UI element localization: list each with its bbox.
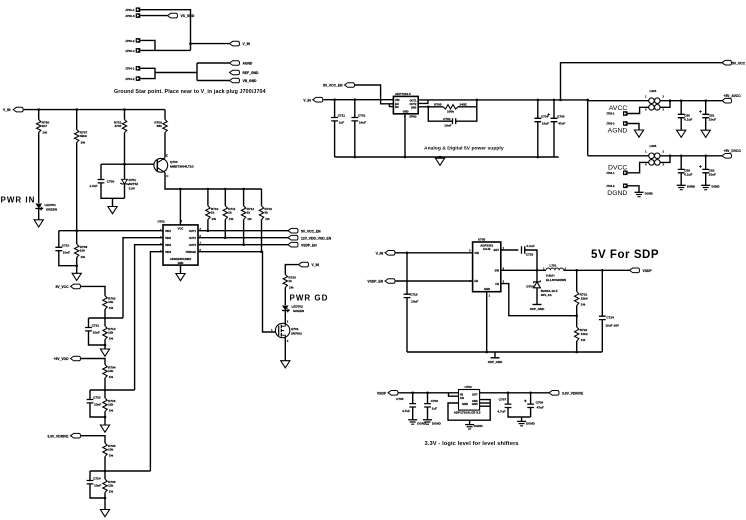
resistor R711 body [223,206,227,220]
net flag 12V_VDD_VSD_EN [288,235,298,240]
wire [494,352,496,358]
svg-text:4.7uF: 4.7uF [497,410,505,414]
wire [418,100,428,104]
svg-text:10nF: 10nF [94,403,101,407]
svg-text:VSDP_EN: VSDP_EN [301,243,317,247]
svg-text:C713: C713 [93,396,101,400]
svg-text:C712: C712 [92,324,100,328]
svg-text:1uF: 1uF [339,121,345,125]
svg-text:C710: C710 [62,243,70,247]
wire VSDP to U700 [399,392,459,394]
wire [660,156,670,163]
junction [559,99,562,102]
junction [586,99,589,102]
svg-text:1.0nF: 1.0nF [89,184,97,188]
svg-text:VIN2: VIN2 [165,236,171,240]
wire base net [101,163,157,165]
svg-text:VCC: VCC [178,226,184,230]
svg-text:J700-3: J700-3 [125,14,135,18]
svg-text:J703-1: J703-1 [606,112,615,116]
svg-text:C707: C707 [499,398,507,402]
capacitor C706 body [424,404,431,407]
svg-text:1%: 1% [109,337,114,341]
svg-text:GND: GND [403,109,409,113]
capacitor C724 body [599,316,606,319]
LED LED702 [282,306,289,311]
wire R720 to LED702 [284,288,286,306]
wire J700-3 to VS_GND [140,15,167,17]
svg-text:E: E [166,154,168,158]
wire [428,107,452,121]
wire [412,407,414,420]
net flag V_IN (supply) [313,97,323,102]
wire [564,269,630,271]
svg-text:1%: 1% [81,141,86,145]
net flag 5V_VCC [722,60,732,65]
diode D700 body [534,280,541,283]
resistor R708 body [75,244,79,258]
svg-text:GND: GND [484,287,490,291]
wire [261,189,263,206]
wire [104,378,106,390]
wire [38,110,40,120]
svg-text:VSDP: VSDP [377,391,387,395]
wire [680,173,682,186]
svg-text:FB: FB [495,282,499,286]
svg-text:C719: C719 [410,292,418,296]
connector pin AVCC [623,111,628,116]
wire J700-1 to star point [140,10,190,51]
svg-text:V_IN: V_IN [303,98,311,102]
svg-text:10k: 10k [108,300,113,304]
junction [224,236,227,239]
svg-text:J703-4: J703-4 [125,49,135,53]
capacitor C707 body [505,404,512,407]
svg-text:DGND: DGND [687,185,695,189]
wire R700 to LED701 [38,133,40,204]
svg-text:47uF: 47uF [558,121,565,125]
junction [537,99,540,102]
svg-text:+5V_VDD: +5V_VDD [54,357,70,361]
resistor R709 body [163,120,167,133]
wire OUT3 to flag [198,244,288,246]
wire [104,493,106,510]
net flag V_IN (PWR GD) [299,262,309,267]
wire [705,118,707,131]
LED LED701 [35,204,42,209]
wire [406,298,408,352]
connector pin J700-1 [136,7,141,12]
svg-text:10uF: 10uF [709,173,716,177]
wire VIN3 net [135,245,163,390]
svg-text:EPAD: EPAD [410,115,417,119]
wire [628,107,649,113]
junction [537,156,540,159]
svg-text:2k7: 2k7 [42,124,47,128]
wire divider junction [90,389,135,391]
wire +5V_VDD [81,359,105,365]
junction [427,106,430,109]
svg-text:V_IN: V_IN [243,42,251,46]
resistor R716 body [103,398,107,412]
svg-text:4700: 4700 [114,124,121,128]
svg-text:IN: IN [460,392,463,396]
wire [104,412,106,426]
svg-text:VIN: VIN [474,251,479,255]
wire [406,253,408,294]
svg-text:DGND: DGND [474,424,484,428]
junction [123,163,126,166]
wire [561,63,723,100]
resistor R722 body [575,327,579,341]
svg-text:J700-1: J700-1 [125,8,135,12]
ground DGND [423,419,432,421]
wire [334,100,336,118]
svg-text:10nF: 10nF [444,124,451,128]
wire 3.3V_VDRIVE [81,436,105,443]
svg-text:U705: U705 [478,238,486,242]
wire [224,220,226,238]
wire [553,122,555,157]
svg-text:C723: C723 [526,253,534,257]
junction [242,188,245,191]
svg-text:3: 3 [469,250,471,253]
wire [124,110,126,120]
svg-text:OUT1: OUT1 [409,99,416,103]
wire [530,408,532,418]
junction [75,264,78,267]
ground DGND [517,420,526,422]
svg-text:1k: 1k [288,279,292,283]
resistor R720 [283,275,287,288]
wire [660,101,670,108]
svg-text:Analog & Digital 5V power supp: Analog & Digital 5V power supply [424,146,504,152]
svg-text:GREEN: GREEN [46,208,58,212]
wire [261,220,263,252]
junction [75,108,78,111]
wire [243,189,245,206]
svg-text:10k: 10k [108,448,113,452]
ground [176,274,185,281]
svg-text:12k: 12k [108,331,113,335]
wire 5V_VCC [81,286,105,295]
junction [37,108,40,111]
net flag V_IN (SDP) [385,251,395,256]
wire [508,408,531,418]
junction [553,99,556,102]
svg-text:VIN4: VIN4 [165,250,171,254]
svg-text:1k: 1k [247,210,251,214]
svg-text:Q700: Q700 [170,160,178,164]
ground [100,349,109,356]
svg-text:3: 3 [663,164,665,167]
svg-text:GND: GND [462,402,468,406]
ground [634,130,643,137]
svg-text:2: 2 [489,295,491,298]
svg-text:PWRGD: PWRGD [186,250,196,254]
wire cap bottom [89,331,106,345]
svg-text:OUT2: OUT2 [409,102,416,106]
wire C710 bottom [59,251,77,266]
svg-text:68k: 68k [157,124,162,128]
wire BST [501,249,519,251]
wire [705,173,707,186]
junction [189,42,192,45]
wire [680,156,682,170]
junction [242,243,245,246]
svg-text:10uF 16V: 10uF 16V [605,323,620,327]
wire [587,100,589,156]
wire Q701 source to ground [284,338,286,361]
junction [75,229,78,232]
ground [435,158,444,165]
ground [72,273,81,280]
capacitor C711 body [331,118,338,121]
wire [104,457,106,472]
svg-text:V_IN: V_IN [3,108,11,112]
resistor R704 body [103,365,107,379]
wire [407,351,602,353]
connector pin J704-2 [136,76,141,81]
wire to ground [112,198,114,206]
svg-text:SDP_GND: SDP_GND [488,360,503,364]
wire [576,341,578,352]
junction [529,392,532,395]
svg-text:GND: GND [472,402,478,406]
svg-text:J703-2: J703-2 [606,122,615,126]
junction [669,155,672,158]
junction [104,344,107,347]
net flag V_IN (left rail) [13,107,23,112]
wire [104,471,106,479]
resistor R714 body [103,326,107,340]
svg-text:12V_VDD_VSD_EN: 12V_VDD_VSD_EN [301,236,332,240]
wire ground star vertical [196,63,198,81]
svg-text:R705: R705 [434,103,442,107]
capacitor C705 body [409,404,416,407]
wire [536,288,538,305]
svg-text:SDP_GND: SDP_GND [530,307,545,311]
connector pin AGND [623,121,628,126]
svg-text:L701: L701 [550,264,557,268]
wire FB [501,284,577,316]
svg-text:REF_GND: REF_GND [243,71,260,75]
junction [260,250,263,253]
wire [335,156,559,158]
svg-text:ADP7102-5: ADP7102-5 [395,92,411,96]
svg-text:LED701: LED701 [45,203,57,207]
wire [628,124,639,131]
wire [458,106,477,108]
junction [536,269,539,272]
svg-text:EN: EN [460,396,464,400]
junction [179,188,182,191]
wire D701 bottom [124,184,126,198]
svg-text:SW: SW [495,269,500,273]
capacitor C59 body [678,169,685,172]
wire [418,106,443,108]
svg-text:V_IN: V_IN [312,263,320,267]
wire EN [396,280,473,282]
svg-text:10k: 10k [108,369,113,373]
svg-text:DGND: DGND [712,185,720,189]
wire [525,250,537,270]
connector pin J703-4 [136,48,141,53]
svg-text:1%: 1% [109,490,114,494]
wire [207,220,209,231]
wire [104,318,106,326]
svg-text:OUT: OUT [472,392,478,396]
ground DGND [701,184,710,186]
svg-text:VIN: VIN [395,98,399,102]
svg-text:3: 3 [663,109,665,112]
svg-text:1k: 1k [211,210,215,214]
svg-text:+5V_AVCC: +5V_AVCC [724,94,742,98]
svg-text:BST: BST [494,248,500,252]
svg-text:VSDP: VSDP [643,269,653,273]
svg-text:SNS: SNS [411,105,417,109]
wire ground star [155,72,197,74]
capacitor C700 body [98,180,105,183]
net flag 5V_VCC_EN (out) [288,228,298,233]
connector pin J700-3 [136,13,141,18]
svg-text:AGND: AGND [608,128,628,135]
junction [406,252,409,255]
svg-text:1k: 1k [265,210,269,214]
capacitor C710 body [55,247,62,250]
wire [89,471,91,481]
svg-text:L623: L623 [650,144,657,148]
wire [576,316,578,327]
junction [575,314,578,317]
wire [501,269,546,271]
svg-text:10k2: 10k2 [581,332,588,336]
net flag +5V_VDD [71,356,81,361]
svg-text:J704-1: J704-1 [606,171,615,175]
wire [243,220,245,245]
wire J704-1/J704-2 join [140,68,155,78]
wire [601,270,603,316]
svg-text:4.7uF: 4.7uF [402,409,410,413]
wire [521,417,523,421]
wire J703-2 [140,40,155,50]
svg-text:5V_VCC_EN: 5V_VCC_EN [323,84,343,88]
IC U702 ADM1185ARMZ [163,225,198,265]
svg-text:AVCC: AVCC [609,105,627,112]
capacitor C712 body [85,328,92,331]
junction [104,389,107,392]
ground [100,510,109,517]
svg-text:+5V_DVCC: +5V_DVCC [724,149,742,153]
svg-text:3.3V - logic level for level s: 3.3V - logic level for level shifters [425,441,519,447]
svg-text:C: C [166,174,169,178]
svg-text:3.3V_VDRIVE: 3.3V_VDRIVE [47,434,69,438]
svg-text:J704-1: J704-1 [125,67,135,71]
wire [480,405,491,407]
wire [412,393,414,404]
svg-text:1uF: 1uF [432,406,438,410]
wire [76,110,78,130]
svg-text:MMBT3904LT1G: MMBT3904LT1G [170,165,194,169]
wire [389,104,393,107]
wire [100,164,102,179]
wire V_IN to U705 [396,252,473,254]
svg-text:10nF: 10nF [93,331,100,335]
junction [485,351,488,354]
svg-text:3.3V: 3.3V [129,187,136,191]
ground [281,361,290,368]
junction [575,269,578,272]
svg-text:PWR IN: PWR IN [1,195,36,204]
wire [456,100,477,121]
capacitor C704 body [534,118,541,121]
wire [480,392,549,394]
svg-text:1%: 1% [109,375,114,379]
capacitor C60 body [678,114,685,117]
wire [486,292,488,352]
MOSFET Q701 2N7002 [275,323,289,337]
net flag 3.3V_VDRIVE (out) [549,391,559,396]
wire [660,155,722,157]
wire [58,231,60,248]
svg-text:EN: EN [395,102,399,106]
svg-text:DGND: DGND [645,192,653,196]
wire [89,390,91,400]
wire to V_IN flag [191,43,230,45]
wire [576,270,578,291]
capacitor C723 body [522,246,525,254]
junction [123,108,126,111]
net flag +5V_AVCC [722,98,732,103]
junction [224,188,227,191]
svg-text:U700: U700 [465,385,473,389]
net flag 5V_VCC_EN (in) [345,83,355,88]
wire [104,390,106,398]
wire VIN2 net [123,238,163,318]
wire [76,258,78,274]
ground SDP_GND [533,304,542,306]
wire to U702 VCC [179,189,181,225]
junction [575,351,578,354]
svg-text:3.3V_VDRIVE: 3.3V_VDRIVE [562,391,584,395]
svg-text:C705: C705 [396,397,404,401]
svg-text:0.1uF: 0.1uF [527,244,535,248]
junction [104,416,107,419]
svg-text:AGND: AGND [243,62,253,66]
junction [680,155,683,158]
resistor R702 body [103,296,107,310]
capacitor C719 body [404,294,411,297]
wire R701 to base net [124,133,126,165]
junction [704,155,707,158]
svg-text:DGND: DGND [607,190,627,197]
wire [576,306,578,316]
junction [404,156,407,159]
IC U700 ADP1710-3.3 [459,390,480,411]
wire divider junction [90,470,150,472]
wire V_IN to R720 [285,265,298,275]
wire [705,156,707,170]
resistor R703 body [103,443,107,457]
wire [601,320,603,352]
svg-text:2N7002: 2N7002 [291,332,302,336]
wire R709 to Q700 emitter [164,133,166,158]
wire [427,407,429,420]
svg-text:5V For SDP: 5V For SDP [591,249,659,261]
svg-text:4: 4 [645,164,647,167]
svg-text:9: 9 [181,219,183,223]
ground DGND [465,424,474,426]
